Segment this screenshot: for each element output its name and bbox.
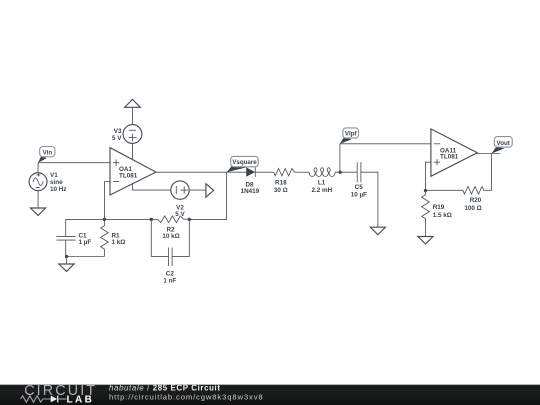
wire OA1 bottom power pin to V2 (133, 183, 172, 190)
wire C5 to ground (361, 172, 378, 227)
svg-text:Vout: Vout (497, 140, 510, 147)
wire V2 to right arrow (189, 189, 206, 191)
junction node C1 bottom (65, 255, 68, 258)
svg-text:Vin: Vin (43, 150, 53, 157)
svg-text:10 µF: 10 µF (351, 192, 367, 199)
svg-text:1 nF: 1 nF (163, 277, 176, 284)
power arrow right of V2 (206, 184, 214, 198)
wire OA1 output to Vsquare node and diode (156, 171, 246, 173)
inductor L1 (309, 168, 335, 194)
svg-text:10 kΩ: 10 kΩ (162, 233, 179, 240)
resistor R18 (274, 169, 295, 195)
junction node L1/C5/Vlpf (338, 171, 341, 174)
junction node R1 top (103, 218, 106, 221)
svg-text:R18: R18 (275, 180, 287, 187)
ground below C1 (59, 264, 74, 271)
node Vsquare flag (227, 156, 259, 172)
svg-text:LAB: LAB (67, 395, 95, 405)
svg-text:TL081: TL081 (440, 154, 459, 161)
wire OA1 - input down to R1 top (105, 182, 111, 220)
svg-text:1 kΩ: 1 kΩ (112, 239, 126, 246)
resistor R2 (158, 216, 189, 240)
node Vin flag (38, 147, 55, 163)
svg-text:1N419: 1N419 (241, 188, 260, 195)
resistor R20 (463, 187, 484, 212)
capacitor C1 (56, 219, 91, 256)
power arrow above V3 (125, 99, 141, 107)
svg-text:5 V: 5 V (112, 135, 122, 142)
ground right of C5 (370, 227, 385, 234)
voltage source V3 (112, 107, 142, 143)
wire D8 to R18 (255, 171, 273, 173)
wire Vin node to OA1 + input (38, 162, 110, 164)
resistor R1 (101, 219, 126, 256)
footer title text (109, 384, 264, 402)
wire OA11 output (477, 153, 500, 155)
ground below R19 (418, 237, 433, 244)
voltage source V2 (171, 181, 189, 218)
svg-text:30 Ω: 30 Ω (274, 187, 288, 194)
footer bar (0, 380, 540, 405)
ground below V1 (30, 208, 45, 215)
voltage source V1 (29, 163, 66, 208)
wire to ground below C1 (66, 257, 68, 265)
wire node row C1-R1-R2 (66, 218, 158, 220)
wire OA11 + input down to R19/R20 junction (426, 162, 431, 190)
junction node R19/R20 (424, 189, 427, 192)
capacitor C5 (351, 162, 367, 198)
wire V3 to OA1 top power pin (132, 143, 134, 159)
svg-text:Vsquare: Vsquare (232, 159, 257, 166)
svg-text:R20: R20 (470, 197, 482, 204)
svg-text:L1: L1 (318, 180, 326, 187)
svg-text:1 µF: 1 µF (79, 239, 92, 246)
wire R20 to Vout node (483, 154, 491, 191)
node Vlpf flag (340, 128, 359, 144)
wire Vlpf tap (339, 144, 341, 172)
svg-text:1.5 kΩ: 1.5 kΩ (433, 212, 452, 219)
node Vout flag (491, 137, 512, 154)
svg-text:5 V: 5 V (175, 211, 185, 218)
wire junction to R20 (426, 189, 463, 191)
svg-text:V1: V1 (50, 172, 58, 179)
wire C1 bottom to R1 bottom (66, 256, 105, 258)
svg-text:TL081: TL081 (119, 173, 138, 180)
junction node R2 right (188, 218, 191, 221)
svg-text:Vlpf: Vlpf (345, 131, 358, 138)
svg-text:R19: R19 (433, 204, 445, 211)
wire L1 to C5 (335, 171, 357, 173)
svg-text:10 Hz: 10 Hz (50, 186, 66, 193)
wire R18 to L1 (294, 171, 309, 173)
capacitor C2 (151, 219, 189, 284)
svg-text:sine: sine (50, 179, 63, 186)
wire feedback Vsquare down to R2 (189, 172, 226, 219)
resistor R19 (422, 191, 452, 237)
svg-text:C5: C5 (355, 184, 364, 191)
junction node R2 left (150, 218, 153, 221)
op-amp OA11 (431, 129, 477, 176)
svg-text:100 Ω: 100 Ω (464, 205, 481, 212)
diode D8 (241, 167, 260, 195)
wire Vlpf to OA11 - input (340, 143, 431, 145)
CircuitLab logo (21, 383, 98, 405)
svg-text:2.2 mH: 2.2 mH (311, 187, 332, 194)
svg-text:habutale / 285 ECP Circuit: habutale / 285 ECP Circuit (109, 384, 221, 393)
svg-text:http://circuitlab.com/cgw8k3q8: http://circuitlab.com/cgw8k3q8w3xv8 (109, 393, 264, 402)
op-amp OA1 (110, 148, 156, 195)
